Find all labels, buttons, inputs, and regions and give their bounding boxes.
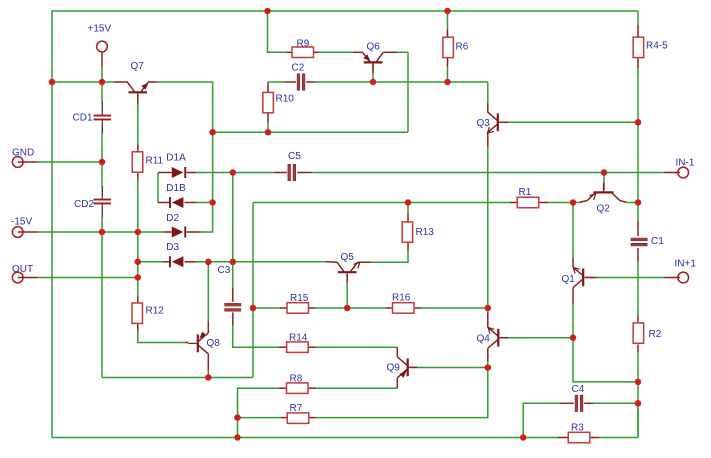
svg-text:C4: C4 (572, 384, 585, 395)
svg-text:Q4: Q4 (477, 333, 491, 344)
wire R4-5 branch (637, 11, 639, 222)
wire R12 to Q8 base (138, 323, 189, 343)
junction x212 y132 (209, 129, 216, 136)
wire R11 to -15V net (137, 173, 139, 304)
junction -15V x137 (135, 229, 142, 236)
terminal IN-1 (676, 158, 695, 178)
diode D1A (166, 153, 186, 179)
resistor R13 (402, 222, 434, 242)
junction Q2 left (570, 199, 577, 206)
resistor R1 (517, 187, 539, 208)
svg-text:OUT: OUT (12, 264, 33, 275)
wire C2 to Q3 collector (306, 82, 488, 112)
junction Q5 base (344, 305, 351, 312)
junction -15V x102 (99, 229, 106, 236)
transistor Q8 (188, 332, 220, 354)
wire R10 bottom lead (267, 113, 269, 132)
svg-text:R8: R8 (290, 374, 303, 385)
resistor R8 (287, 374, 309, 394)
terminal +15V (88, 24, 112, 52)
resistor R11 (132, 152, 163, 172)
wire Q1 base IN+1 row (585, 277, 680, 279)
junction GND x102 (99, 159, 106, 166)
wire C5 to IN-1 (274, 172, 680, 174)
svg-text:Q8: Q8 (207, 338, 221, 349)
wire Q4 base row (500, 337, 573, 339)
wire Q9 base row (410, 367, 488, 369)
junction R10 y132 (265, 129, 272, 136)
transistor Q4 (477, 327, 508, 348)
wire R15 row (253, 307, 488, 309)
wire Q3 emitter down (487, 133, 489, 308)
terminal IN+1 (675, 258, 697, 283)
junction OUT x137 (135, 274, 142, 281)
svg-text:R9: R9 (297, 38, 310, 49)
wire C3 branch (233, 173, 286, 348)
svg-text:-15V: -15V (11, 217, 32, 228)
junction D3 x137 (135, 259, 142, 266)
capacitor CD1 (73, 102, 112, 133)
junction bottom x237 (234, 434, 241, 441)
svg-text:R4-5: R4-5 (646, 41, 668, 52)
resistor R16 (392, 292, 414, 313)
resistor R7 (287, 403, 309, 423)
diode D2 (166, 213, 186, 238)
transistor Q9 (387, 357, 418, 378)
svg-text:C1: C1 (651, 236, 664, 247)
wire R3 leads (558, 403, 638, 437)
capacitor C3 (218, 265, 241, 311)
resistor R6 (443, 37, 469, 57)
wire row y202 net (253, 202, 517, 204)
wire Q7 base to R11 (137, 95, 139, 152)
terminal OUT (12, 264, 33, 283)
wire bottom rail OUT net (52, 203, 638, 438)
wire Q2 base lead (603, 173, 605, 191)
terminal GND (12, 148, 34, 168)
capacitor C1 (631, 236, 664, 247)
svg-text:R6: R6 (456, 42, 469, 53)
wire Q4 emitter lead (487, 348, 489, 368)
resistor R15 (287, 293, 309, 313)
svg-text:CD2: CD2 (74, 199, 94, 210)
svg-text:Q3: Q3 (477, 118, 491, 129)
wire -15V lead (18, 231, 172, 233)
wire Q1 emitter down (573, 288, 638, 382)
resistor R2 (633, 323, 662, 343)
svg-text:R3: R3 (571, 422, 584, 433)
wire D1A D1B left link (158, 173, 172, 203)
svg-text:+15V: +15V (88, 24, 112, 35)
svg-text:R7: R7 (290, 403, 303, 414)
capacitor C2 (292, 62, 305, 90)
wire R2 leads (637, 315, 639, 438)
junction bottom x523 (520, 434, 527, 441)
junction R15 left (250, 305, 257, 312)
svg-text:C3: C3 (218, 265, 231, 276)
wire row y82 Q7 emitter rail (52, 81, 128, 83)
capacitor C4 (572, 384, 585, 412)
junction Q2 right (635, 199, 642, 206)
wire Q2 left lead (580, 200, 588, 202)
junction R13 top (405, 199, 412, 206)
junction top rail x447 (444, 8, 451, 15)
wire D1B anode (185, 202, 213, 204)
junction R16 right (485, 305, 492, 312)
resistor R14 (287, 332, 309, 352)
svg-text:Q6: Q6 (367, 41, 381, 52)
svg-text:Q9: Q9 (387, 362, 401, 373)
svg-text:D1A: D1A (166, 153, 186, 164)
wire R13 branch (358, 203, 408, 263)
wire Q5 base lead (346, 274, 348, 308)
junction Q4 base right (570, 334, 577, 341)
svg-text:D3: D3 (166, 242, 179, 253)
junction x102 y82 (99, 79, 106, 86)
wire x573 vertical (572, 203, 574, 268)
junction D1A x233 (230, 169, 237, 176)
diode D1B (166, 183, 186, 208)
wire row y132 net (213, 52, 408, 132)
terminal -15V (11, 217, 32, 238)
wire Q2 right lead (619, 200, 638, 202)
wire R1 right lead (539, 202, 579, 204)
transistor Q3 (477, 112, 508, 133)
svg-text:D1B: D1B (166, 183, 186, 194)
svg-text:R16: R16 (392, 292, 411, 303)
svg-text:R1: R1 (519, 187, 532, 198)
wire GND lead (18, 161, 102, 163)
svg-text:IN+1: IN+1 (675, 258, 697, 269)
wire R14 right to Q9 (309, 347, 398, 357)
wire x102 vertical CD1 CD2 (101, 82, 103, 378)
junction D1B x212 (209, 199, 216, 206)
wire Q6 base lead (372, 64, 374, 82)
transistor Q5 (337, 252, 360, 282)
junction R2 bottom (635, 379, 642, 386)
resistor R3 (568, 422, 590, 443)
wire C1 leads (637, 222, 639, 315)
wire D3 row (138, 261, 337, 263)
wire R7 row (238, 368, 488, 418)
wire Q6 collector corner (383, 51, 408, 53)
svg-text:R13: R13 (416, 227, 435, 238)
wire R9 to Q6 emitter (314, 51, 363, 53)
junction Q6 base y82 (370, 79, 377, 86)
transistor Q6 (363, 41, 384, 72)
svg-text:R2: R2 (649, 329, 662, 340)
junction C4 right (635, 400, 642, 407)
junction x52 y82 (49, 79, 56, 86)
svg-text:IN-1: IN-1 (676, 158, 695, 169)
junction top rail x267 (264, 8, 271, 15)
junction IN-1 Q2 base (601, 169, 608, 176)
junction D3 x233 (230, 259, 237, 266)
svg-text:GND: GND (12, 148, 34, 159)
wire OUT lead (18, 277, 138, 279)
wire D1A cathode to C5 row (186, 172, 274, 174)
resistor R10 (263, 92, 294, 112)
resistor R12 (132, 303, 164, 323)
resistor R9 (292, 38, 314, 57)
svg-text:Q2: Q2 (597, 204, 611, 215)
svg-text:Q5: Q5 (341, 252, 355, 263)
wire C4 row (523, 403, 638, 437)
svg-text:Q7: Q7 (131, 61, 145, 72)
wire Q4 collector lead (487, 308, 489, 327)
transistor Q1 (562, 267, 593, 288)
junction R4-5 bottom (635, 119, 642, 126)
wire Q8 emitter up (207, 262, 209, 333)
wire R10 top C2 row (268, 82, 296, 92)
wire +15V terminal lead (101, 52, 103, 82)
svg-text:R10: R10 (276, 94, 295, 105)
resistor R4-5 (633, 37, 668, 57)
wire Q8 collector down (207, 354, 209, 378)
junction R7 left (234, 414, 241, 421)
capacitor CD2 (74, 186, 111, 217)
transistor Q2 (588, 183, 620, 215)
junction Q9 base right (485, 364, 492, 371)
wire x267 R9 branch (268, 11, 292, 52)
wire R6 branch (447, 11, 449, 82)
svg-text:R15: R15 (290, 293, 309, 304)
junction R6 y82 (444, 79, 451, 86)
svg-text:Q1: Q1 (562, 274, 576, 285)
svg-text:R11: R11 (146, 156, 164, 167)
svg-text:C5: C5 (288, 151, 301, 162)
wire +15V top rail (52, 11, 638, 438)
wire Q3 base row (500, 121, 638, 123)
svg-text:R12: R12 (146, 306, 165, 317)
wire Q7 emitter to x212 corner (148, 82, 213, 232)
capacitor C5 (288, 151, 301, 181)
junction D3 x208 (205, 259, 212, 266)
transistor Q7 (128, 61, 149, 102)
svg-text:C2: C2 (292, 62, 305, 73)
svg-text:D2: D2 (166, 213, 179, 224)
svg-text:R14: R14 (289, 332, 308, 343)
junction Q8 collector (205, 374, 212, 381)
diode D3 (166, 242, 183, 267)
svg-text:CD1: CD1 (73, 113, 93, 124)
wire R8 row (238, 378, 398, 438)
